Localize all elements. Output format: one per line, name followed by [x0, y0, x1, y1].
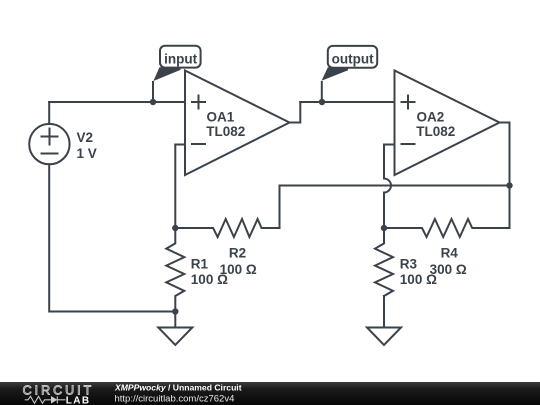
- svg-text:R1: R1: [191, 257, 209, 272]
- svg-text:V2: V2: [77, 130, 94, 145]
- input flag pointer: [153, 67, 180, 81]
- wire OA2 minus stub: [384, 144, 395, 146]
- wire V2 bottom: [49, 164, 175, 311]
- wire input flag stub: [152, 81, 154, 102]
- node dot OA2 fb: [381, 225, 387, 231]
- wire R4 right riser: [509, 186, 511, 229]
- svg-text:output: output: [332, 52, 374, 67]
- svg-text:http://circuitlab.com/cz762v4: http://circuitlab.com/cz762v4: [115, 394, 235, 405]
- wire R2 right riser: [279, 186, 281, 229]
- svg-text:input: input: [164, 52, 197, 67]
- wire OA2 feedback vertical with hop: [384, 145, 391, 229]
- wire OA1 feedback vertical: [174, 145, 176, 229]
- logo diode arrow: [51, 396, 57, 404]
- svg-text:300 Ω: 300 Ω: [430, 262, 467, 277]
- svg-text:TL082: TL082: [206, 124, 245, 139]
- wire top rail stage2: [300, 101, 394, 103]
- wire R3 bottom to ground: [383, 296, 385, 328]
- svg-text:R3: R3: [400, 257, 418, 272]
- node dot OA2 out: [506, 182, 512, 188]
- svg-text:100 Ω: 100 Ω: [220, 262, 257, 277]
- svg-text:LAB: LAB: [66, 395, 91, 405]
- voltage source V2: [29, 124, 69, 164]
- output flag pointer: [322, 67, 349, 81]
- op-amp OA1: [185, 71, 290, 176]
- wire main top rail stage1: [49, 101, 185, 103]
- logo resistor-diode glyph: [25, 396, 66, 403]
- wire feedback rail: [280, 185, 510, 187]
- ground GND2: [367, 328, 401, 346]
- node dot input: [150, 99, 156, 105]
- footer bar: [0, 382, 540, 405]
- resistor R3: [375, 228, 393, 296]
- node dot gnd1: [172, 308, 178, 314]
- op-amp OA2: [395, 71, 500, 176]
- wire OA1 minus stub: [175, 144, 185, 146]
- output flag box: [328, 46, 377, 68]
- svg-text:OA2: OA2: [417, 110, 445, 125]
- wire OA2 output right: [499, 123, 510, 186]
- resistor R2: [175, 219, 279, 237]
- svg-text:1 V: 1 V: [77, 146, 97, 161]
- node dot OA1 fb: [172, 225, 178, 231]
- svg-text:R4: R4: [441, 246, 459, 261]
- node dot output: [319, 99, 325, 105]
- svg-text:TL082: TL082: [416, 124, 455, 139]
- svg-text:R2: R2: [229, 246, 246, 261]
- wire V2 top: [48, 102, 50, 124]
- svg-text:XMPPwocky / Unnamed Circuit: XMPPwocky / Unnamed Circuit: [114, 383, 242, 393]
- wire output flag stub: [321, 81, 323, 102]
- wire OA1 output step: [290, 102, 301, 123]
- resistor R1: [166, 228, 184, 312]
- svg-text:OA1: OA1: [207, 110, 235, 125]
- resistor R4: [384, 219, 510, 237]
- ground GND1: [158, 328, 192, 346]
- wire R1 bottom to ground: [174, 312, 176, 328]
- input flag box: [160, 46, 201, 68]
